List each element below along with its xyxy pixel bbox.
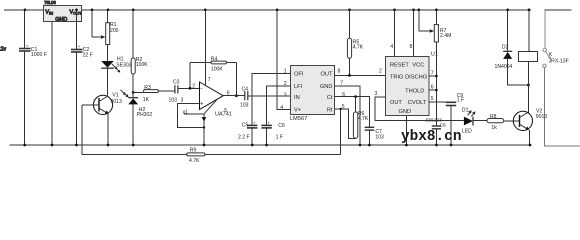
svg-text:78L08: 78L08 <box>44 0 56 5</box>
svg-text:VIN: VIN <box>45 9 53 15</box>
svg-text:R4: R4 <box>211 56 218 62</box>
svg-text:PH302: PH302 <box>137 112 153 118</box>
svg-text:VCC: VCC <box>412 63 424 69</box>
relay K contacts JRX-13F <box>543 10 569 68</box>
svg-text:5: 5 <box>224 108 227 114</box>
photodiode H2 PH302 <box>121 90 153 145</box>
svg-text:6: 6 <box>227 91 230 97</box>
node junction R2/H2/R3 <box>132 91 135 94</box>
svg-text:C8: C8 <box>440 122 446 128</box>
IC U1 555 timer <box>386 51 438 115</box>
wire op-amp offset null pins 1-5 <box>184 100 227 115</box>
capacitor C4 103 <box>240 87 291 109</box>
wire LM567 pin5 to R9 riser <box>340 109 342 155</box>
wire top +12V rail <box>4 9 44 11</box>
resistor R7 2.4M (rheostat) <box>419 10 452 42</box>
wire 555 GND pin1 to ground <box>405 115 407 145</box>
node D2/coil/collector <box>527 84 530 87</box>
svg-text:DISCHG: DISCHG <box>405 74 427 80</box>
capacitor C9 1uF <box>446 93 464 145</box>
wire 555 OUT pin3 to LED chain <box>375 97 464 120</box>
svg-text:D1: D1 <box>462 107 469 113</box>
svg-text:R9: R9 <box>190 148 197 154</box>
svg-text:V+: V+ <box>294 107 302 113</box>
svg-text:3: 3 <box>375 91 378 97</box>
junction dots ground rail <box>23 144 531 147</box>
wire LM567 pin2 to C6 <box>267 86 291 125</box>
capacitor C1 1000uF <box>19 10 47 145</box>
svg-text:9013: 9013 <box>111 99 122 105</box>
svg-text:GND: GND <box>55 17 67 23</box>
svg-text:22 F: 22 F <box>83 52 93 58</box>
wire R9 bottom net / V1 base drive <box>82 105 341 155</box>
relay K coil <box>519 10 538 85</box>
wire op-amp output pin6 <box>223 95 244 97</box>
svg-text:200: 200 <box>110 28 119 34</box>
svg-text:4: 4 <box>280 105 283 111</box>
svg-text:100K: 100K <box>211 66 223 72</box>
svg-text:9013: 9013 <box>536 114 547 120</box>
svg-text:+: + <box>78 44 81 49</box>
svg-text:RESET: RESET <box>390 63 409 69</box>
capacitor C6 1uF <box>261 121 285 145</box>
resistor R4 100K feedback <box>190 56 236 95</box>
wire op-amp ground descender with arrow <box>202 114 207 145</box>
svg-text:OFI: OFI <box>294 72 304 78</box>
svg-text:OUT: OUT <box>320 72 333 78</box>
svg-text:1 F: 1 F <box>457 98 464 104</box>
svg-text:2: 2 <box>284 81 287 87</box>
svg-text:1 F: 1 F <box>276 135 283 141</box>
wire LM567 pin7 GND <box>335 86 361 145</box>
resistor R3 1K <box>133 85 175 103</box>
svg-text:OUT: OUT <box>390 100 403 106</box>
wire LM567 pin6 Ct <box>335 97 370 127</box>
resistor R1 200 (rheostat) <box>92 10 119 61</box>
svg-text:C4: C4 <box>242 87 249 93</box>
regulator U 78L08 <box>44 0 83 23</box>
svg-text:TRIG: TRIG <box>390 74 404 80</box>
svg-text:2: 2 <box>192 84 195 90</box>
svg-text:4: 4 <box>390 44 393 50</box>
wire 555 VCC pin8 riser <box>413 10 415 57</box>
wire 555 THOLD pin6 <box>429 89 437 91</box>
svg-text:5: 5 <box>342 104 345 110</box>
svg-text:R3: R3 <box>144 85 151 91</box>
diode D2 1N4004 <box>495 10 529 85</box>
svg-text:R8: R8 <box>490 114 497 120</box>
svg-text:8: 8 <box>410 44 413 50</box>
svg-text:3: 3 <box>181 98 184 104</box>
svg-text:-: - <box>201 86 203 92</box>
svg-text:+: + <box>253 121 256 126</box>
svg-text:C3: C3 <box>173 80 180 86</box>
svg-text:+: + <box>200 102 204 108</box>
transistor V2 9013 <box>513 85 547 145</box>
svg-text:LFI: LFI <box>294 84 303 90</box>
svg-text:2.2 F: 2.2 F <box>238 135 250 141</box>
svg-text:1: 1 <box>284 68 287 74</box>
svg-text:CVOLT: CVOLT <box>408 100 427 106</box>
op-amp U2 UA741 <box>200 82 232 118</box>
wire relay contact bottom segment <box>544 68 580 147</box>
svg-text:D2: D2 <box>502 44 509 50</box>
svg-text:2: 2 <box>379 69 382 75</box>
svg-text:GND: GND <box>320 84 333 90</box>
svg-text:6: 6 <box>431 85 434 91</box>
svg-text:1000 F: 1000 F <box>31 52 47 58</box>
resistor R6 4.7K <box>353 95 368 138</box>
svg-text:Ct: Ct <box>327 95 333 101</box>
svg-text:6: 6 <box>342 92 345 98</box>
capacitor C2 22uF <box>71 10 93 145</box>
svg-text:+: + <box>26 43 29 48</box>
svg-text:Rt: Rt <box>327 107 333 113</box>
resistor R8 1k <box>487 114 520 131</box>
wire regulator GND to ground rail <box>51 22 53 146</box>
svg-text:5: 5 <box>431 96 434 102</box>
svg-text:4.7K: 4.7K <box>353 44 364 50</box>
junction dots top rail <box>24 8 531 11</box>
svg-text:IN: IN <box>294 95 300 101</box>
transistor V1 9013 <box>82 92 122 145</box>
svg-text:12v: 12v <box>0 47 7 53</box>
svg-text:GND: GND <box>399 109 412 115</box>
wire op-amp pin3 to ground loop <box>178 104 205 128</box>
wire ground rail <box>9 144 531 146</box>
svg-text:V1: V1 <box>112 92 118 98</box>
svg-text:+: + <box>267 121 270 126</box>
svg-text:2.4M: 2.4M <box>440 33 451 39</box>
resistor R2 100K <box>131 10 148 93</box>
svg-text:1k: 1k <box>491 125 497 131</box>
wire 555 RESET pin4 riser <box>394 10 396 57</box>
capacitor C7 103 <box>365 127 384 145</box>
svg-text:103: 103 <box>240 103 249 109</box>
node feedback/pin2 <box>189 87 192 90</box>
svg-text:JRX-13F: JRX-13F <box>549 58 569 64</box>
wire +8V rail <box>82 9 531 11</box>
svg-text:THOLD: THOLD <box>405 88 424 94</box>
svg-text:4.7K: 4.7K <box>189 158 200 164</box>
wire LM567 pin1 to C5 <box>252 74 291 126</box>
svg-text:103: 103 <box>375 134 384 140</box>
svg-text:ybx8.cn: ybx8.cn <box>401 129 461 145</box>
svg-text:1K: 1K <box>143 97 150 103</box>
svg-text:1: 1 <box>185 109 188 115</box>
capacitor C8 103 <box>426 117 446 145</box>
svg-text:103: 103 <box>169 98 178 104</box>
svg-text:3: 3 <box>284 92 287 98</box>
svg-text:C6: C6 <box>278 123 285 129</box>
svg-text:C5: C5 <box>242 123 249 129</box>
LED H1 SE303 (IR emitter) <box>101 57 131 96</box>
capacitor C5 2.2uF <box>238 121 257 145</box>
svg-text:8: 8 <box>338 69 341 75</box>
LED D1 <box>462 107 487 134</box>
svg-text:1N4004: 1N4004 <box>495 64 513 70</box>
svg-text:7: 7 <box>431 70 434 76</box>
wire LM567 pin5 Rt jog to R6 <box>335 109 356 139</box>
wire R7 bottom / THOLD-DISCHG node to C8 <box>435 42 437 126</box>
IC U3 LM567 tone decoder <box>290 66 335 123</box>
capacitor C3 103 <box>169 80 200 104</box>
op-amp pin 7 supply riser <box>204 10 206 85</box>
node feedback/pin6 <box>235 94 238 97</box>
wire 555 CVOLT pin5 to C9 <box>429 101 451 103</box>
wire relay contact top rail segment <box>545 9 572 11</box>
svg-text:LM567: LM567 <box>290 116 307 122</box>
svg-text:LED: LED <box>462 129 472 135</box>
svg-text:7: 7 <box>340 81 343 87</box>
svg-text:SE303: SE303 <box>116 63 131 69</box>
resistor R9 4.7K <box>187 148 205 164</box>
svg-text:4.7K: 4.7K <box>358 116 369 122</box>
wire LM567 pin8 OUT to 555 TRIG <box>335 74 386 76</box>
svg-text:100K: 100K <box>136 62 148 68</box>
wire LM567 pin4 V+ riser <box>277 10 291 110</box>
svg-text:K: K <box>549 52 553 58</box>
resistor R5 4.7K <box>347 10 363 76</box>
wire 555 DISCHG pin7 <box>429 75 437 77</box>
svg-text:7: 7 <box>208 77 211 83</box>
